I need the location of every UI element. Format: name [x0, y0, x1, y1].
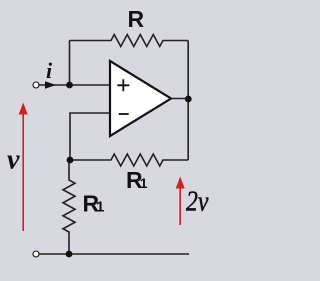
- bottom wire: [36, 253, 189, 255]
- voltage arrow 2v: [179, 186, 181, 225]
- svg-text:1: 1: [140, 175, 148, 191]
- svg-text:i: i: [46, 58, 53, 83]
- resistor R1 (horizontal): [70, 154, 188, 166]
- op-amp minus pin symbol: [119, 113, 129, 115]
- node dot: bottom junction: [66, 251, 73, 258]
- wire: non-inverting input from terminal to op-amp: [36, 84, 110, 86]
- svg-text:v: v: [7, 145, 20, 176]
- svg-text:2v: 2v: [186, 186, 209, 217]
- wire: node A riser to feedback loop: [69, 41, 71, 86]
- voltage arrow v: [22, 112, 24, 231]
- wire: op-amp output stub: [171, 98, 188, 100]
- resistor R1 (vertical): [63, 160, 75, 254]
- op-amp U1: [110, 61, 171, 136]
- node dot: + input junction: [66, 82, 73, 89]
- wire: inverting input step: [70, 113, 110, 160]
- terminal: top left: [33, 82, 39, 88]
- terminal: bottom left: [33, 251, 39, 257]
- op-amp plus pin symbol: [117, 79, 129, 91]
- svg-text:R: R: [128, 6, 145, 32]
- resistor R: [70, 35, 189, 47]
- node dot: - input junction: [67, 157, 74, 164]
- current direction arrow on input wire: [45, 81, 56, 89]
- svg-text:1: 1: [96, 199, 104, 216]
- wire: right bus: [187, 41, 189, 161]
- node dot: output junction: [185, 96, 192, 103]
